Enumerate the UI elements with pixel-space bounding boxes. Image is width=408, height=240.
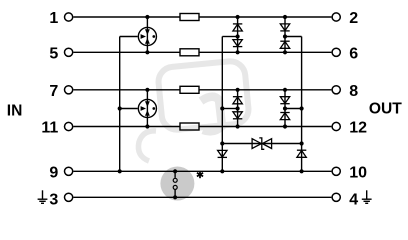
svg-text:6: 6	[349, 45, 358, 62]
svg-text:3: 3	[49, 191, 58, 208]
svg-text:9: 9	[49, 164, 58, 181]
svg-text:7: 7	[49, 83, 58, 100]
svg-text:2: 2	[349, 10, 358, 27]
svg-text:1: 1	[49, 10, 58, 27]
svg-text:4: 4	[349, 191, 358, 208]
svg-text:OUT: OUT	[369, 101, 402, 118]
svg-text:5: 5	[49, 45, 58, 62]
svg-text:12: 12	[349, 120, 367, 137]
svg-text:11: 11	[41, 120, 58, 137]
svg-text:IN: IN	[7, 103, 23, 120]
svg-text:8: 8	[349, 83, 358, 100]
svg-text:10: 10	[349, 164, 367, 181]
